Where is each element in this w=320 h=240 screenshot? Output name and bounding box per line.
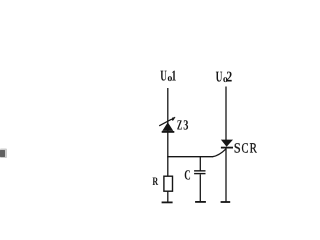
svg-text:2: 2 <box>226 69 232 85</box>
wire: left rail from Uo1 down through zener to resistor <box>167 88 169 176</box>
label SCR <box>234 141 258 156</box>
terminal bar under resistor <box>162 201 173 203</box>
svg-text:R: R <box>152 176 158 188</box>
svg-text:U: U <box>216 69 223 85</box>
stray scan speck at left edge <box>0 149 7 159</box>
svg-text:3: 3 <box>183 118 188 133</box>
wire: capacitor bottom lead <box>199 174 201 201</box>
terminal bar under SCR branch <box>221 201 231 203</box>
wire: resistor bottom lead <box>167 191 169 202</box>
terminal bar under capacitor <box>195 201 206 203</box>
net label Uo1 <box>160 69 176 85</box>
wire: horizontal wire from left rail toward SCR gate <box>167 156 213 158</box>
svg-text:Z: Z <box>177 118 182 133</box>
svg-text:1: 1 <box>171 69 176 85</box>
wire: SCR gate curve <box>213 149 227 157</box>
wire: capacitor top stub <box>199 157 201 171</box>
svg-text:C: C <box>242 141 249 156</box>
wire: right rail from SCR cathode down <box>225 148 227 201</box>
wire: right rail from Uo2 down to SCR anode <box>225 87 227 141</box>
svg-text:C: C <box>184 169 191 184</box>
svg-text:R: R <box>250 141 258 156</box>
label Z3 <box>177 118 189 133</box>
resistor R <box>164 176 173 191</box>
svg-text:S: S <box>234 141 241 156</box>
capacitor C <box>194 171 205 174</box>
net label Uo2 <box>216 69 233 85</box>
SCR thyristor <box>221 140 233 148</box>
svg-text:U: U <box>160 69 167 85</box>
zener diode Z3 <box>159 117 175 132</box>
